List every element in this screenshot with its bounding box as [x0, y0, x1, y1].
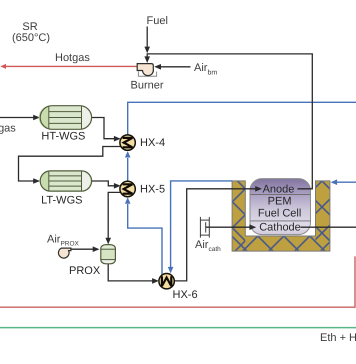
wire syngas inlet — [0, 117, 34, 119]
wire air to PROX — [71, 248, 93, 250]
wire burner air — [160, 66, 191, 68]
svg-text:Anode: Anode — [263, 184, 295, 196]
PROX air blower symbol — [58, 248, 70, 258]
vessel LT-WGS — [40, 171, 91, 191]
burner blower symbol — [137, 64, 153, 76]
wire coolant blue return arrow into stack right wall — [337, 181, 356, 183]
svg-text:(650°C): (650°C) — [12, 32, 50, 44]
furnace container U-shape — [232, 181, 330, 251]
fuel cell separator PEM/cathode — [250, 220, 310, 222]
svg-text:HX-6: HX-6 — [173, 289, 198, 301]
svg-text:HT-WGS: HT-WGS — [41, 131, 85, 143]
svg-text:Fuel: Fuel — [147, 15, 168, 27]
wire cathode exhaust — [301, 226, 356, 228]
svg-text:Syngas: Syngas — [0, 123, 16, 135]
fuel cell U1 PEM stack body — [250, 179, 311, 235]
wire HX-5 to PROX — [108, 192, 121, 238]
wire LT-WGS to HX-5 — [92, 181, 115, 186]
svg-text:Airbm: Airbm — [194, 62, 217, 77]
wire HX-4 to LT-WGS — [19, 147, 122, 182]
wire PROX to HX-6 — [108, 264, 153, 281]
wire red return bottom — [0, 256, 355, 307]
svg-text:PROX: PROX — [69, 265, 101, 277]
air filter cath symbol — [200, 217, 209, 238]
wire fuel inlet — [146, 27, 148, 47]
svg-text:PEM: PEM — [268, 196, 292, 208]
heat exchanger HX-6 — [159, 274, 174, 289]
burner bracket — [138, 72, 156, 77]
svg-text:Eth + H2O: Eth + H2O — [320, 332, 356, 346]
wire HT-WGS to HX-4 — [92, 118, 115, 139]
svg-text:Fuel Cell: Fuel Cell — [258, 207, 301, 219]
wire coolant loop blue: stack jacket to HX-6 — [171, 181, 233, 267]
svg-text:Burner: Burner — [130, 80, 163, 92]
wire coolant blue: HX-5 to HX-4 — [127, 158, 129, 181]
svg-text:Cathode: Cathode — [259, 221, 301, 233]
wire hotgas red to SR — [2, 65, 137, 67]
svg-text:HX-4: HX-4 — [140, 137, 165, 149]
svg-text:Hotgas: Hotgas — [55, 52, 90, 64]
wire coolant blue: HX-6 up to HX-5 — [128, 204, 162, 275]
heat exchanger HX-4 — [120, 135, 135, 150]
wire cathode air inlet — [206, 226, 250, 228]
heat exchanger HX-5 — [120, 181, 135, 196]
wire anode offgas to burner — [147, 54, 312, 189]
fuel cell outline — [250, 179, 311, 235]
svg-text:AirPROX: AirPROX — [47, 234, 80, 248]
svg-text:HX-5: HX-5 — [140, 184, 165, 196]
wire HX-6 to anode — [174, 189, 256, 281]
vessel PROX — [101, 245, 116, 264]
wire coolant blue: HX-4 to top right edge — [128, 102, 356, 135]
svg-text:Aircath: Aircath — [195, 239, 221, 253]
vessel HT-WGS — [39, 106, 92, 130]
fuel cell separator anode/PEM — [250, 194, 310, 196]
wire green bottom — [0, 327, 356, 329]
svg-text:LT-WGS: LT-WGS — [41, 195, 82, 207]
